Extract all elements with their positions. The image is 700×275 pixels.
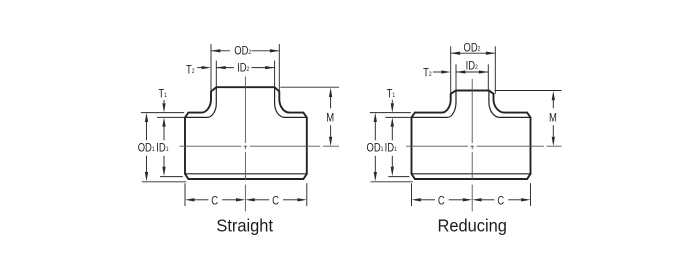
Straight tee inner bore line bottom bbox=[185, 173, 307, 175]
svg-text:ID1: ID1 bbox=[156, 142, 168, 155]
dimension ID2 (Straight) bbox=[216, 67, 234, 69]
caption Straight bbox=[216, 216, 273, 235]
svg-text:Straight: Straight bbox=[216, 216, 273, 235]
Reducing tee inner bore line bottom bbox=[412, 173, 531, 175]
ID2 extension lines (Straight) bbox=[215, 61, 217, 88]
label T2 (Straight) bbox=[186, 63, 195, 76]
M extension line top (Reducing) bbox=[495, 90, 562, 92]
C dimension extension lines (Straight) bbox=[184, 183, 186, 206]
C dimension extension lines (Reducing) bbox=[411, 183, 413, 206]
Reducing tee inner bore contour left bbox=[412, 91, 457, 118]
dimension C right (Straight) bbox=[255, 199, 269, 201]
T2 pointer arrow (Reducing) bbox=[433, 71, 441, 73]
svg-text:M: M bbox=[326, 112, 334, 125]
svg-text:T1: T1 bbox=[158, 88, 167, 101]
svg-text:ID2: ID2 bbox=[237, 61, 249, 74]
svg-text:OD2: OD2 bbox=[464, 41, 481, 54]
caption Reducing bbox=[438, 216, 507, 235]
dimension OD2 (Reducing) bbox=[451, 52, 496, 54]
T1 pointer arrow (Straight) bbox=[163, 100, 165, 103]
Reducing run horizontal centerline bbox=[406, 145, 468, 147]
Straight branch vertical centerline bbox=[244, 77, 246, 144]
dimension C left (Straight) bbox=[194, 199, 208, 201]
Reducing tee outer contour bbox=[412, 91, 531, 180]
Straight tee outer contour bbox=[185, 87, 307, 179]
svg-text:C: C bbox=[211, 194, 218, 207]
dimension M (Straight) bbox=[330, 97, 332, 109]
dimension ID2 (Reducing) bbox=[456, 71, 488, 73]
OD2 extension lines (Straight) bbox=[210, 44, 212, 92]
dimension OD1 (Reducing) bbox=[374, 122, 376, 140]
svg-text:Reducing: Reducing bbox=[438, 216, 507, 235]
Reducing branch vertical centerline bbox=[471, 79, 473, 143]
Reducing tee inner bore contour right bbox=[489, 91, 531, 118]
M extension line top (Straight) bbox=[280, 86, 339, 88]
dimension M (Reducing) bbox=[552, 100, 554, 108]
dimension C left (Reducing) bbox=[421, 199, 435, 201]
Straight tee inner bore contour left bbox=[185, 87, 216, 117]
dimension ID1 (Reducing) bbox=[391, 127, 393, 141]
Straight tee inner bore contour right bbox=[275, 87, 307, 117]
label T1 (Reducing) bbox=[387, 88, 396, 101]
Straight run horizontal centerline bbox=[180, 145, 242, 147]
svg-text:OD1: OD1 bbox=[367, 142, 384, 155]
svg-text:ID2: ID2 bbox=[466, 59, 478, 72]
svg-text:ID1: ID1 bbox=[385, 142, 397, 155]
T1 pointer arrow (Reducing) bbox=[391, 100, 393, 103]
svg-text:C: C bbox=[272, 194, 279, 207]
OD2 extension lines (Reducing) bbox=[450, 46, 452, 94]
svg-text:OD2: OD2 bbox=[234, 45, 251, 58]
dimension OD1 (Straight) bbox=[146, 122, 148, 140]
label T2 (Reducing) bbox=[423, 67, 432, 80]
svg-text:T2: T2 bbox=[423, 67, 432, 80]
T2 pointer arrow (Straight) bbox=[197, 67, 202, 69]
dimension ID1 (Straight) bbox=[163, 127, 165, 141]
dimension OD2 (Straight) bbox=[211, 50, 230, 52]
svg-text:C: C bbox=[497, 194, 504, 207]
dimension C right (Reducing) bbox=[482, 199, 495, 201]
OD1 ID1 extension lines (Reducing) bbox=[370, 112, 411, 114]
OD1 ID1 extension lines (Straight) bbox=[141, 112, 184, 114]
svg-text:M: M bbox=[549, 112, 557, 125]
svg-text:T2: T2 bbox=[186, 63, 195, 76]
label T1 (Straight) bbox=[158, 88, 167, 101]
svg-text:C: C bbox=[438, 194, 445, 207]
ID2 extension lines (Reducing) bbox=[455, 64, 457, 90]
svg-text:T1: T1 bbox=[387, 88, 396, 101]
svg-text:OD1: OD1 bbox=[138, 142, 155, 155]
